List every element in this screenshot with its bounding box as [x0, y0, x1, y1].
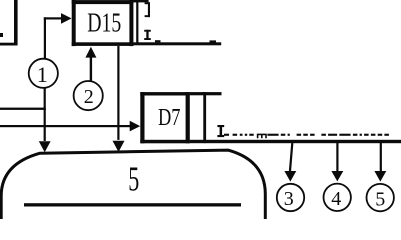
connector 5: [367, 184, 394, 211]
tick on rail: [210, 40, 217, 42]
box (partial, top-left): [0, 0, 18, 46]
pin label I: [144, 30, 151, 40]
svg-text:5: 5: [128, 160, 139, 199]
dashed bus line: [224, 134, 389, 136]
svg-text:D7: D7: [158, 105, 181, 131]
D15 top edge extension: [133, 0, 148, 2]
notch glyphs on dashed line: [258, 134, 266, 138]
bus label I: [217, 125, 224, 137]
D15 right compartment vertical: [136, 0, 138, 44]
wire below connector 1: [44, 88, 46, 141]
connector 1: [29, 59, 58, 88]
svg-text:1: 1: [37, 62, 48, 87]
underline in process box: [24, 203, 241, 206]
pin label ]: [145, 2, 150, 17]
wire to connector 4: [331, 143, 343, 181]
wire to connector 3: [284, 143, 296, 182]
connector 2: [74, 81, 103, 110]
mark inside top-left box: [0, 33, 3, 37]
wire into D15 left: [44, 13, 72, 24]
box D7: [140, 92, 190, 143]
svg-text:5: 5: [375, 189, 385, 211]
process box (rounded): [1, 150, 265, 222]
D7 top edge extension: [190, 92, 222, 95]
bottom rail right of D7: [190, 140, 401, 143]
tick on rail: [155, 40, 161, 42]
bus wire into D7: [0, 121, 140, 132]
box D15: [72, 0, 134, 46]
arrowhead into process box: [39, 141, 51, 152]
svg-text:3: 3: [284, 188, 294, 210]
connector 4: [324, 184, 351, 211]
bottom rail right of D15: [133, 42, 221, 45]
wire from corner down to connector 1: [44, 17, 46, 58]
stub wire at left (y=108): [0, 108, 46, 110]
D7 right compartment vertical: [203, 92, 206, 143]
wire to connector 5: [374, 143, 386, 182]
svg-text:D15: D15: [87, 8, 121, 38]
connector 3: [277, 184, 304, 211]
svg-text:4: 4: [331, 188, 341, 210]
arrow into D15 bottom: [85, 47, 96, 81]
wire from D15 down to process box: [113, 46, 125, 152]
svg-text:2: 2: [84, 86, 94, 108]
